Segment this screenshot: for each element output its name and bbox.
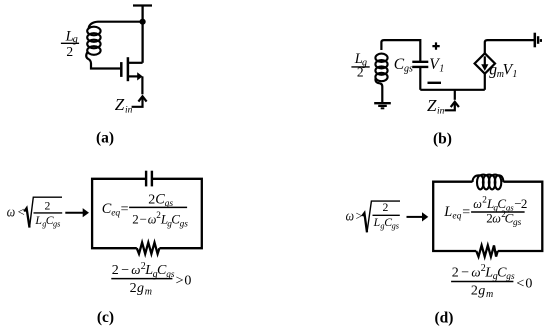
svg-text:(a): (a) [96,129,114,146]
svg-text:2: 2 [130,281,137,296]
svg-text:0: 0 [184,273,191,288]
impedance arrow Zin (a) [132,96,147,107]
wire diamond-top to ground (b) [485,40,535,53]
sideways ground symbol (b) [535,33,541,48]
svg-text:gs: gs [513,218,522,228]
equation (2-w2LgCgs)/2gm > 0 below box (c) [111,261,191,298]
svg-text:2: 2 [44,199,50,212]
label gmV1 (b) [489,62,517,81]
svg-text:>: > [176,273,184,288]
label V1 with polarity (b) [428,42,445,82]
svg-text:ω: ω [473,197,482,211]
svg-text:g: g [137,281,144,296]
svg-text:eq: eq [452,211,461,221]
wire gate-top (a) [89,22,143,28]
svg-text:2: 2 [112,263,119,278]
svg-text:2: 2 [471,284,478,299]
transistor M1 drain wire (a) [128,62,143,64]
svg-text:gs: gs [53,220,60,229]
power rail VDD (a) [133,6,152,63]
svg-text:ω: ω [492,211,501,225]
svg-text:gs: gs [506,272,515,282]
svg-text:gs: gs [165,199,174,209]
box outline (c) [92,179,202,248]
svg-text:2: 2 [382,201,388,214]
equation (2-w2LgCgs)/2gm < 0 below box (d) [451,263,532,300]
svg-text:ω: ω [346,209,354,225]
port stub (b) [454,90,456,100]
svg-text:2: 2 [66,44,73,59]
junction node (a) [140,19,146,25]
svg-text:g: g [478,284,485,299]
svg-text:2: 2 [148,192,155,207]
resistor on bottom edge (c) [137,243,160,254]
label Lg/2 (b) [351,51,369,80]
svg-text:gs: gs [180,219,189,229]
wire inductor-to-ground (b) [375,78,382,103]
svg-text:−: − [140,212,147,227]
svg-text:2: 2 [452,266,459,281]
condition omega > sqrt(2/LgCgs) (d) [346,201,400,232]
transistor M1 channel bar (a) [127,57,130,81]
capacitor Ceq on top edge (c) [146,171,152,187]
implies arrow (c) [65,208,89,217]
inductor Leq on top edge (d) [473,175,504,190]
svg-text:gs: gs [392,221,399,230]
svg-text:L: L [443,204,452,220]
svg-text:<: < [516,277,524,292]
svg-text:ω: ω [131,262,140,277]
transistor M1 gate bar (a) [120,62,123,77]
svg-text:Z: Z [115,95,125,114]
svg-text:>: > [356,209,363,223]
label Lg/2 (a) [61,28,79,58]
label Zin (b) [427,96,445,116]
svg-text:2: 2 [521,196,528,211]
ground symbol (b) [374,103,391,108]
svg-text:Z: Z [427,96,437,115]
inductor Lg/2 (a) [87,27,100,55]
resistor on bottom edge (d) [476,245,497,256]
svg-text:=: = [462,205,470,220]
svg-text:m: m [145,286,152,297]
wire diamond-bottom (b) [484,74,486,90]
svg-text:ω: ω [471,265,480,280]
svg-text:eq: eq [111,209,120,219]
capacitor Cgs (b) [412,62,428,67]
svg-text:ω: ω [7,204,15,220]
inductor Lg/2 (b) [375,54,387,82]
equation Leq inside box (d) [443,196,527,229]
condition omega < sqrt(2/LgCgs) (c) [7,197,62,228]
svg-text:=: = [121,202,129,217]
implies arrow (d) [407,212,429,221]
svg-text:2: 2 [357,65,364,80]
svg-text:(c): (c) [97,309,114,326]
dependent current source gmV1 diamond (b) [475,53,495,73]
label Zin (a) [115,95,133,115]
svg-text:in: in [437,106,445,116]
transistor M1 source wire with arrow (a) [128,72,143,94]
svg-text:0: 0 [525,277,532,292]
svg-text:<: < [18,205,25,219]
svg-text:−: − [461,266,469,281]
equation Ceq inside box (c) [102,191,188,229]
wire cap-to-rail (b) [419,67,421,90]
svg-text:2: 2 [132,212,139,227]
bottom rail (b) [420,89,485,91]
box outline (d) [433,182,542,251]
svg-text:gs: gs [404,64,413,75]
wire top rail (b) [381,40,420,62]
svg-text:(d): (d) [435,310,454,327]
svg-text:m: m [486,289,493,300]
svg-text:−: − [121,263,129,278]
wire inductor-to-gate (a) [86,52,120,69]
svg-text:L: L [373,216,381,229]
label Cgs (b) [394,56,413,75]
impedance arrow Zin (b) [445,102,459,111]
svg-text:L: L [34,214,42,227]
svg-text:(b): (b) [433,131,452,148]
svg-text:1: 1 [439,64,444,75]
svg-text:1: 1 [512,69,517,80]
svg-text:in: in [125,105,133,115]
